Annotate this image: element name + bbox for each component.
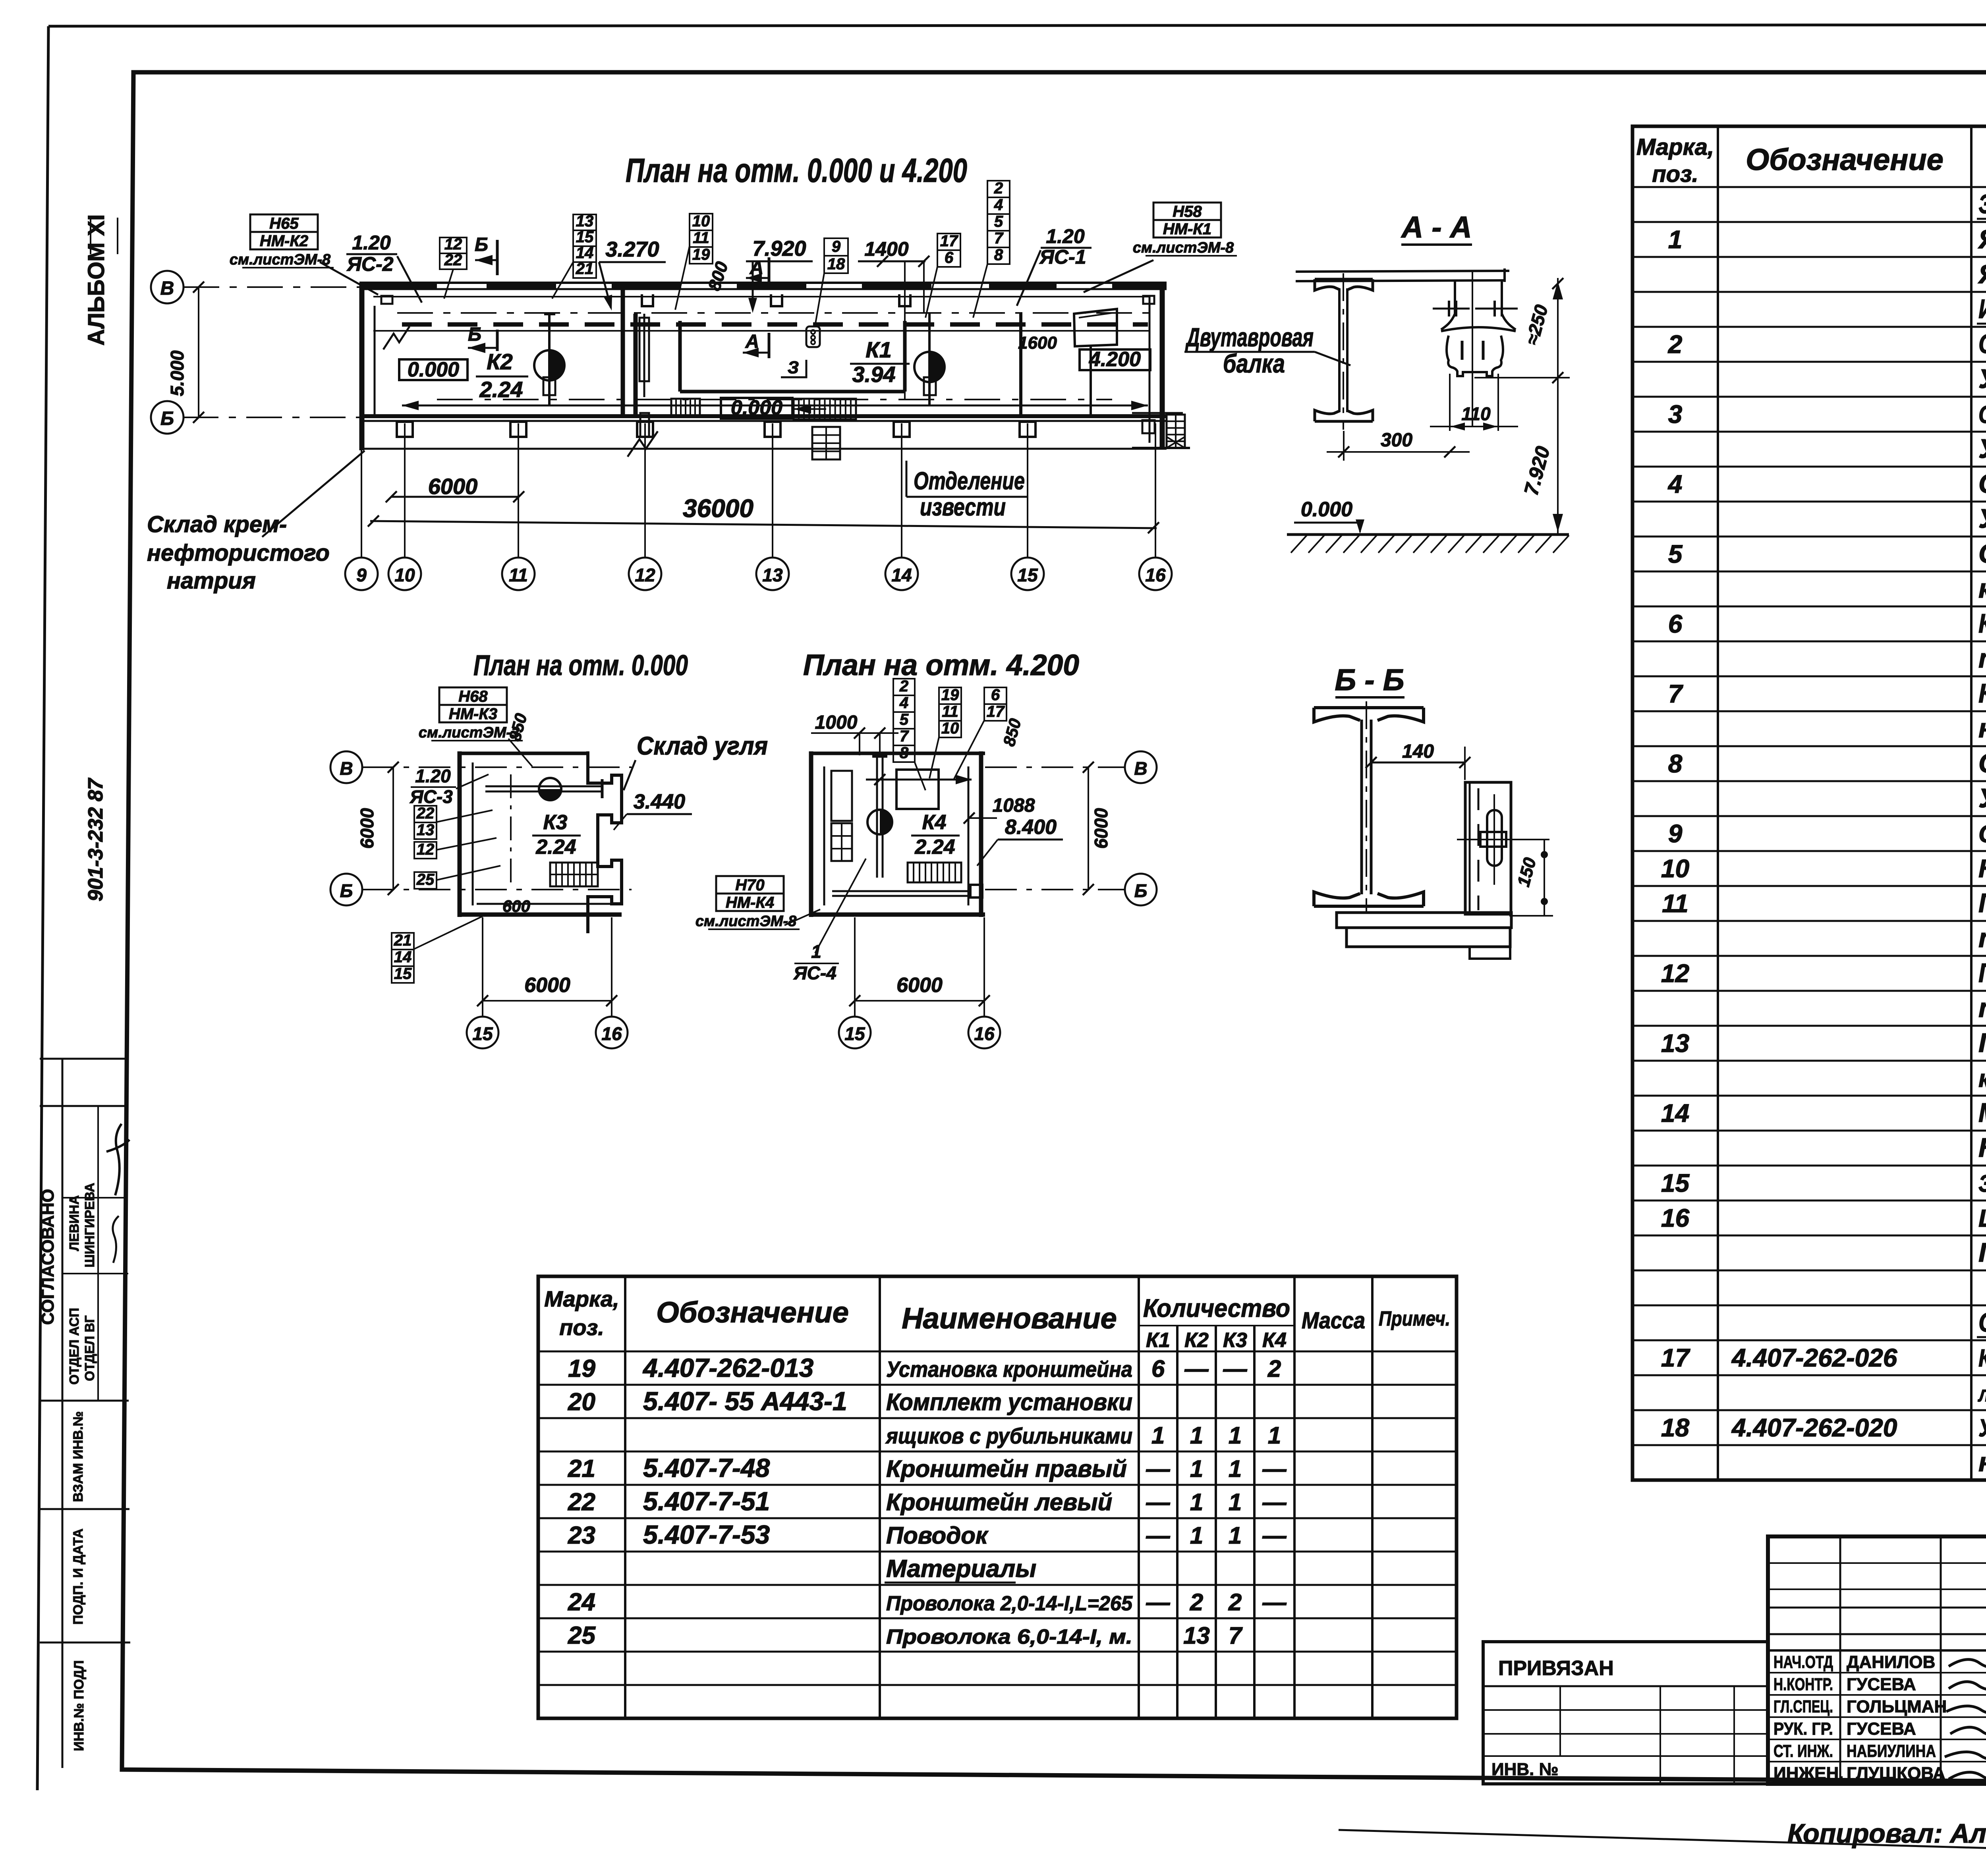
sp2 axes 15 16 (854, 917, 856, 1017)
svg-text:8: 8 (900, 744, 909, 762)
svg-text:ГОСТ 2319-81: ГОСТ 2319-81 (1978, 1237, 1986, 1268)
svg-text:3: 3 (1668, 400, 1683, 428)
svg-text:19: 19 (692, 246, 710, 263)
svg-text:6000: 6000 (1091, 808, 1111, 849)
main plan right wall (1160, 283, 1165, 448)
svg-text:ГУСЕВА: ГУСЕВА (1847, 1719, 1916, 1739)
svg-text:13: 13 (1183, 1622, 1210, 1649)
svg-text:10: 10 (941, 720, 959, 737)
corner tick boxes top wall (1143, 296, 1154, 304)
svg-text:Н68: Н68 (458, 688, 488, 705)
svg-text:Ящик силовой: Ящик силовой (1978, 224, 1986, 254)
sp2 inner partitions (831, 771, 852, 821)
svg-text:1600: 1600 (1018, 333, 1057, 353)
svg-text:17: 17 (1661, 1343, 1691, 1372)
svg-text:13: 13 (762, 565, 783, 585)
svg-text:ПРИВЯЗАН: ПРИВЯЗАН (1498, 1657, 1614, 1680)
trolley busbar bottom rail (402, 405, 1148, 407)
svg-text:6000: 6000 (524, 974, 570, 997)
wall break marks (628, 431, 658, 457)
svg-text:—: — (1262, 1489, 1287, 1515)
svg-text:см.листЭМ-8: см.листЭМ-8 (695, 913, 797, 930)
sp1 crane axis dash (510, 774, 512, 890)
sp2 axis circles V B right (1125, 751, 1157, 783)
svg-text:ПОДП. И ДАТА: ПОДП. И ДАТА (71, 1529, 86, 1625)
axis 16 leader (1155, 423, 1156, 558)
svg-text:Муфта натяжения: Муфта натяжения (1978, 1098, 1986, 1128)
axis 14 leader (901, 423, 902, 558)
svg-text:2: 2 (1190, 1589, 1203, 1615)
svg-text:К2: К2 (487, 349, 513, 374)
svg-text:балка: балка (1223, 349, 1285, 378)
bottom column squares (397, 422, 413, 437)
svg-text:22: 22 (444, 251, 462, 269)
svg-text:1088: 1088 (993, 795, 1035, 816)
svg-text:10: 10 (1661, 854, 1689, 883)
B-B I-beam (1314, 708, 1424, 722)
svg-text:3.270: 3.270 (605, 237, 659, 261)
svg-text:РУК. ГР.: РУК. ГР. (1773, 1719, 1833, 1739)
axis 10 leader (404, 423, 406, 558)
kopiroval underline (1339, 1830, 1986, 1854)
B-B base plates (1337, 913, 1511, 928)
svg-text:ящиков с рубильниками: ящиков с рубильниками (885, 1423, 1132, 1448)
svg-text:1: 1 (1229, 1489, 1242, 1515)
long step grid (794, 399, 856, 419)
svg-text:извести: извести (920, 494, 1006, 521)
svg-text:2: 2 (1267, 1355, 1281, 1382)
svg-text:Светофор У2629 У3: Светофор У2629 У3 (1978, 820, 1986, 848)
svg-text:Электрооборудование: Электрооборудование (1978, 189, 1986, 219)
svg-text:5.407-7-51: 5.407-7-51 (643, 1486, 770, 1516)
svg-text:Проволока 2,0-14-I,L=265: Проволока 2,0-14-I,L=265 (886, 1592, 1133, 1615)
svg-text:Б: Б (475, 234, 488, 255)
sp2 crane line (876, 756, 878, 878)
svg-text:К2: К2 (1184, 1329, 1209, 1352)
outer border top (48, 25, 1986, 26)
svg-text:9: 9 (356, 565, 367, 585)
svg-text:см.листЭМ-8: см.листЭМ-8 (230, 251, 331, 268)
sp1 callout 12 (414, 842, 437, 859)
main plan left wall (359, 283, 365, 450)
label H58 box (1153, 203, 1221, 220)
svg-text:ГУСЕВА: ГУСЕВА (1847, 1675, 1916, 1694)
svg-text:13: 13 (1661, 1029, 1689, 1058)
sp2 callout stack 2-4-5-7-8 (893, 679, 915, 695)
svg-text:Б - Б: Б - Б (1335, 663, 1404, 697)
internal shaft (643, 314, 645, 397)
svg-text:7: 7 (900, 728, 909, 745)
svg-text:1000: 1000 (815, 712, 858, 733)
svg-text:нефтористого: нефтористого (147, 540, 330, 566)
sp1 walls (458, 751, 462, 917)
callout stack 9-18 (824, 238, 848, 256)
svg-text:15: 15 (1661, 1169, 1690, 1197)
svg-text:14: 14 (576, 244, 594, 262)
svg-text:4: 4 (994, 196, 1003, 214)
svg-text:16: 16 (1145, 565, 1166, 585)
svg-text:ШИНГИРЕВА: ШИНГИРЕВА (82, 1183, 97, 1267)
svg-text:1: 1 (1190, 1455, 1203, 1482)
B-B dim 140 (1371, 762, 1465, 764)
A-A trolley bracket (1472, 271, 1473, 427)
svg-text:1: 1 (1229, 1422, 1242, 1449)
svg-text:22: 22 (568, 1488, 595, 1516)
svg-text:Подвес концевого: Подвес концевого (1978, 1028, 1986, 1058)
svg-text:5.407-7-48: 5.407-7-48 (643, 1453, 770, 1482)
svg-text:ЯС-2: ЯС-2 (346, 253, 393, 275)
svg-text:—: — (1223, 1355, 1248, 1382)
stamp signature squiggle (106, 1124, 129, 1195)
sp1 callout stack 21-14-15 (392, 933, 414, 950)
svg-text:11: 11 (942, 703, 958, 720)
svg-text:К3: К3 (543, 811, 568, 834)
sp2 dim 6000 vertical right (1088, 767, 1089, 890)
svg-text:19: 19 (941, 686, 959, 704)
svg-text:Кронштейн левый: Кронштейн левый (886, 1489, 1112, 1515)
axis circle 9 (345, 558, 378, 590)
sp2 crane circle (867, 810, 892, 834)
svg-text:7: 7 (1229, 1622, 1243, 1649)
svg-text:ДАНИЛОВ: ДАНИЛОВ (1847, 1652, 1935, 1672)
svg-text:Марка,: Марка, (1636, 134, 1714, 160)
svg-text:ГЛУШКОВА: ГЛУШКОВА (1847, 1764, 1945, 1783)
axis 9 leader (361, 423, 362, 558)
svg-text:6: 6 (1668, 610, 1683, 638)
svg-text:11: 11 (693, 229, 709, 247)
svg-text:А - А: А - А (1401, 210, 1472, 244)
vertical grid below (812, 427, 840, 459)
svg-text:Б: Б (468, 324, 481, 345)
svg-text:4.407-262-020: 4.407-262-020 (1731, 1413, 1897, 1442)
svg-text:4.407-262-013: 4.407-262-013 (642, 1353, 813, 1382)
svg-text:План на отм. 0.000: План на отм. 0.000 (473, 650, 688, 681)
svg-text:Материалы: Материалы (886, 1555, 1036, 1583)
svg-text:12: 12 (417, 841, 435, 858)
axis circle 15 (1011, 558, 1044, 590)
svg-text:6: 6 (945, 249, 954, 266)
svg-text:25: 25 (568, 1622, 596, 1649)
svg-text:типа ПСК 10÷20: типа ПСК 10÷20 (1978, 993, 1986, 1023)
svg-text:1.20: 1.20 (352, 232, 391, 254)
svg-text:Цепь СН6 х 19,L=265: Цепь СН6 х 19,L=265 (1978, 1205, 1986, 1232)
svg-text:Обозначение: Обозначение (1746, 143, 1943, 177)
crane column 2 (928, 314, 931, 405)
svg-text:ОТДЕЛ АСП: ОТДЕЛ АСП (67, 1308, 81, 1384)
svg-text:3.94: 3.94 (852, 362, 896, 387)
svg-text:10: 10 (692, 212, 710, 230)
svg-text:7: 7 (994, 230, 1004, 247)
label H65 box (250, 214, 318, 232)
svg-text:25: 25 (416, 871, 435, 888)
svg-text:8: 8 (1668, 749, 1683, 778)
svg-text:Б: Б (160, 408, 174, 429)
svg-text:1: 1 (1190, 1489, 1203, 1515)
svg-text:Масса: Масса (1302, 1308, 1365, 1334)
svg-text:В: В (1134, 758, 1147, 779)
big specification table (1632, 126, 1986, 1480)
svg-text:2.24: 2.24 (535, 836, 576, 859)
svg-text:План на отм. 4.200: План на отм. 4.200 (803, 648, 1079, 681)
svg-text:1: 1 (1668, 225, 1683, 254)
partition wall x=2746 (1090, 347, 1092, 416)
svg-text:К4: К4 (1262, 1329, 1287, 1352)
svg-text:15: 15 (1017, 565, 1038, 585)
main plan top wall (359, 282, 1167, 284)
svg-text:1: 1 (1229, 1455, 1242, 1482)
svg-text:Двутавровая: Двутавровая (1185, 322, 1314, 352)
sp2 callout stack 6-17 (984, 687, 1007, 704)
internal wall x=1568 (621, 283, 625, 416)
svg-text:Копировал: Алешикова: Копировал: Алешикова (1787, 1818, 1986, 1849)
svg-text:—: — (1262, 1522, 1287, 1549)
svg-text:ЯС-4: ЯС-4 (793, 963, 837, 983)
svg-text:21: 21 (394, 932, 412, 949)
svg-text:Зажим тросовый К676: Зажим тросовый К676 (1978, 1170, 1986, 1197)
svg-text:—: — (1262, 1455, 1287, 1482)
svg-text:1: 1 (1229, 1522, 1242, 1549)
svg-text:2: 2 (1668, 330, 1683, 359)
axis circle V (151, 271, 184, 303)
axis circle 14 (885, 558, 918, 590)
svg-text:Комплект установки: Комплект установки (886, 1389, 1132, 1415)
svg-text:ВЗАМ ИНВ.№: ВЗАМ ИНВ.№ (71, 1411, 86, 1502)
ladder hatch left of 0.000 (671, 399, 700, 417)
svg-text:Конструкция для прок-: Конструкция для прок- (1978, 1345, 1986, 1372)
svg-text:СОГЛАСОВАНО: СОГЛАСОВАНО (38, 1189, 58, 1325)
svg-text:Поводок: Поводок (886, 1522, 989, 1549)
svg-text:110: 110 (1461, 403, 1491, 424)
sp2 ladder hatch (908, 863, 961, 882)
svg-text:13: 13 (576, 212, 594, 230)
svg-text:6: 6 (1151, 1355, 1165, 1382)
privyazan block (1483, 1642, 1768, 1784)
svg-text:1: 1 (1268, 1422, 1281, 1449)
svg-text:Секция прямая 3000 мм: Секция прямая 3000 мм (1978, 401, 1986, 428)
svg-text:точная К780 У3: точная К780 У3 (1978, 923, 1986, 953)
sp1 dim 6000 vertical (392, 767, 394, 890)
svg-text:Проволока 6,0-14-I, м.: Проволока 6,0-14-I, м. (886, 1625, 1132, 1648)
sp1 crane circle (539, 778, 561, 800)
dim 5.000 (198, 287, 199, 417)
dim 36000 (370, 521, 1157, 528)
svg-text:ная У2328У3: ная У2328У3 (1978, 713, 1986, 743)
svg-text:6000: 6000 (428, 474, 478, 499)
svg-text:крепления ПКК10÷20: крепления ПКК10÷20 (1978, 1065, 1986, 1092)
corner ladder right wall (1167, 415, 1185, 448)
svg-text:на шинопроводе: на шинопроводе (1978, 1447, 1986, 1477)
svg-text:—: — (1262, 1589, 1287, 1615)
svg-text:600: 600 (502, 897, 530, 915)
dim 6000 top plan (391, 496, 519, 498)
svg-text:—: — (1146, 1522, 1171, 1549)
svg-text:5: 5 (1668, 540, 1683, 568)
axis circle 12 (629, 558, 661, 590)
svg-text:19: 19 (568, 1355, 595, 1382)
svg-text:—: — (1146, 1489, 1171, 1515)
svg-text:Н58: Н58 (1173, 203, 1202, 220)
svg-text:ГОЛЬЦМАН: ГОЛЬЦМАН (1847, 1697, 1947, 1716)
svg-text:300: 300 (1381, 430, 1412, 451)
svg-text:14: 14 (394, 948, 412, 966)
svg-text:ЯС-3: ЯС-3 (410, 786, 453, 807)
svg-text:Скоба ведущая: Скоба ведущая (1978, 748, 1986, 778)
svg-text:—: — (1184, 1355, 1209, 1382)
svg-text:—: — (1146, 1455, 1171, 1482)
svg-text:У2601У3: У2601У3 (1978, 364, 1986, 394)
svg-text:18: 18 (827, 255, 845, 273)
svg-text:К3: К3 (1223, 1329, 1247, 1352)
svg-text:15: 15 (844, 1023, 865, 1044)
axis 12 leader (644, 423, 646, 558)
svg-text:14: 14 (891, 565, 912, 585)
sp2 callout stack 19-11-10 (939, 687, 961, 704)
svg-text:5.407-7-53: 5.407-7-53 (643, 1520, 770, 1549)
callout stack 2-4-5-7-8 (987, 181, 1010, 197)
svg-text:Отделение: Отделение (914, 467, 1025, 495)
svg-text:23: 23 (568, 1522, 595, 1549)
svg-text:1.20: 1.20 (1046, 225, 1085, 247)
svg-text:5: 5 (900, 711, 909, 728)
svg-text:5.000: 5.000 (167, 350, 187, 396)
svg-text:ИНВ.№ ПОДЛ: ИНВ.№ ПОДЛ (71, 1660, 87, 1751)
svg-text:У2604У3: У2604У3 (1978, 434, 1986, 464)
svg-text:К1: К1 (865, 337, 892, 362)
A-A dim 300 (1343, 431, 1345, 461)
svg-text:поз.: поз. (559, 1315, 604, 1340)
svg-text:21: 21 (568, 1455, 595, 1482)
small window detail right (1074, 309, 1117, 346)
sp1 callout 25 (414, 872, 437, 889)
svg-text:1: 1 (1151, 1422, 1165, 1449)
axis V line (184, 286, 365, 288)
svg-text:5.407- 55 А443-1: 5.407- 55 А443-1 (643, 1386, 847, 1416)
svg-text:Примеч.: Примеч. (1379, 1307, 1450, 1330)
svg-text:АЛЬБОМ XI: АЛЬБОМ XI (83, 214, 109, 345)
svg-text:4: 4 (1667, 470, 1683, 498)
svg-text:тельные У2623 У3: тельные У2623 У3 (1978, 643, 1986, 674)
svg-text:12: 12 (1661, 959, 1689, 988)
svg-text:В: В (340, 758, 353, 779)
svg-text:НМ-К3: НМ-К3 (449, 705, 497, 723)
svg-text:Установка кронштейна: Установка кронштейна (886, 1357, 1132, 1382)
svg-text:24: 24 (568, 1588, 595, 1616)
svg-text:0.000: 0.000 (408, 358, 459, 381)
svg-text:7.920: 7.920 (752, 237, 806, 261)
svg-text:—: — (1146, 1589, 1171, 1615)
svg-text:натрия: натрия (167, 568, 256, 594)
sp1 axes 15 16 (482, 917, 483, 1017)
svg-text:4.200: 4.200 (1089, 348, 1141, 371)
svg-text:17: 17 (940, 232, 958, 250)
svg-text:0.000: 0.000 (1301, 498, 1352, 521)
svg-text:6000: 6000 (357, 808, 377, 849)
callout stack 13-15-14-21 (573, 214, 596, 230)
svg-text:У2606: У2606 (1978, 504, 1986, 534)
crane rail support line (373, 296, 1149, 297)
svg-text:ЯВПЗ-15У2: ЯВПЗ-15У2 (1978, 259, 1986, 289)
svg-text:12: 12 (444, 235, 462, 253)
foundation line (359, 448, 1167, 450)
svg-text:15: 15 (576, 228, 594, 246)
traffic light symbol (806, 326, 820, 347)
A-A dim 110 (1449, 374, 1451, 431)
svg-text:10: 10 (394, 565, 415, 585)
trolley busbar top (402, 322, 1148, 327)
internal wall x=2570 (1019, 314, 1022, 416)
svg-text:Кронштейн правый: Кронштейн правый (886, 1455, 1127, 1482)
crane circle 2 (914, 352, 945, 382)
svg-text:15: 15 (472, 1023, 493, 1044)
svg-text:У2321 У3: У2321 У3 (1978, 783, 1986, 813)
svg-text:12: 12 (635, 565, 655, 585)
hanger hooks on top wall (771, 294, 782, 306)
B-B bracket plate (1465, 782, 1511, 914)
svg-text:36000: 36000 (683, 494, 753, 523)
B-B dim 150 (1544, 840, 1545, 916)
rail axis dash-dot (397, 312, 1164, 314)
crane column 1 (548, 314, 551, 405)
svg-text:22: 22 (416, 805, 435, 822)
svg-text:ИНЖЕН.: ИНЖЕН. (1773, 1764, 1844, 1783)
sp1 crane beam (485, 786, 602, 787)
svg-text:ладки проводов и кабелей: ладки проводов и кабелей (1977, 1381, 1986, 1406)
svg-text:7: 7 (1668, 679, 1684, 708)
svg-text:16: 16 (601, 1023, 622, 1044)
svg-text:1: 1 (1190, 1422, 1203, 1449)
svg-text:К4: К4 (922, 811, 947, 834)
svg-text:Секция прямая 750мм: Секция прямая 750мм (1978, 329, 1986, 359)
svg-text:Секция концевая: Секция концевая (1978, 469, 1986, 499)
svg-text:Наименование: Наименование (902, 1302, 1117, 1335)
svg-text:К1: К1 (1146, 1329, 1170, 1352)
crane circle 1 (534, 350, 564, 380)
svg-text:В: В (160, 278, 174, 299)
svg-text:Н.КОНТР.: Н.КОНТР. (1773, 1675, 1833, 1694)
svg-text:Б: Б (1134, 880, 1148, 901)
svg-text:2: 2 (899, 677, 908, 695)
svg-text:18: 18 (1661, 1413, 1690, 1442)
sp2 busbar line with arrow (866, 779, 972, 781)
svg-text:17: 17 (987, 703, 1005, 720)
svg-text:НМ-К2: НМ-К2 (260, 232, 308, 250)
right room railing (1132, 412, 1183, 414)
svg-text:СТ. ИНЖ.: СТ. ИНЖ. (1773, 1741, 1833, 1761)
svg-text:ОТДЕЛ ВГ: ОТДЕЛ ВГ (82, 1315, 97, 1381)
svg-text:15: 15 (394, 965, 412, 982)
axis circle 11 (502, 558, 535, 590)
svg-text:Н70: Н70 (735, 876, 764, 894)
svg-text:каретки У2607У3: каретки У2607У3 (1978, 573, 1986, 604)
staff signatures (1949, 1660, 1986, 1669)
A-A dim 250 and 7.920 shared line (1557, 278, 1559, 534)
svg-text:6: 6 (991, 686, 1000, 704)
svg-text:2: 2 (994, 179, 1003, 197)
svg-text:20: 20 (568, 1388, 595, 1416)
callout stack 10-11-19 (690, 214, 713, 230)
svg-text:140: 140 (1402, 741, 1434, 762)
sp1 axis circles V B (330, 751, 362, 783)
svg-text:Склад угля: Склад угля (637, 731, 768, 760)
axis B line left (183, 417, 361, 418)
svg-text:9: 9 (1668, 819, 1683, 848)
svg-text:ИНВ. №: ИНВ. № (1491, 1760, 1559, 1779)
B-B bolt slot (1487, 810, 1502, 866)
title block (1768, 1536, 1986, 1784)
svg-text:Подвес скользящего: Подвес скользящего (1978, 958, 1986, 988)
sp2 walls (809, 751, 813, 917)
svg-text:14: 14 (1661, 1099, 1689, 1127)
